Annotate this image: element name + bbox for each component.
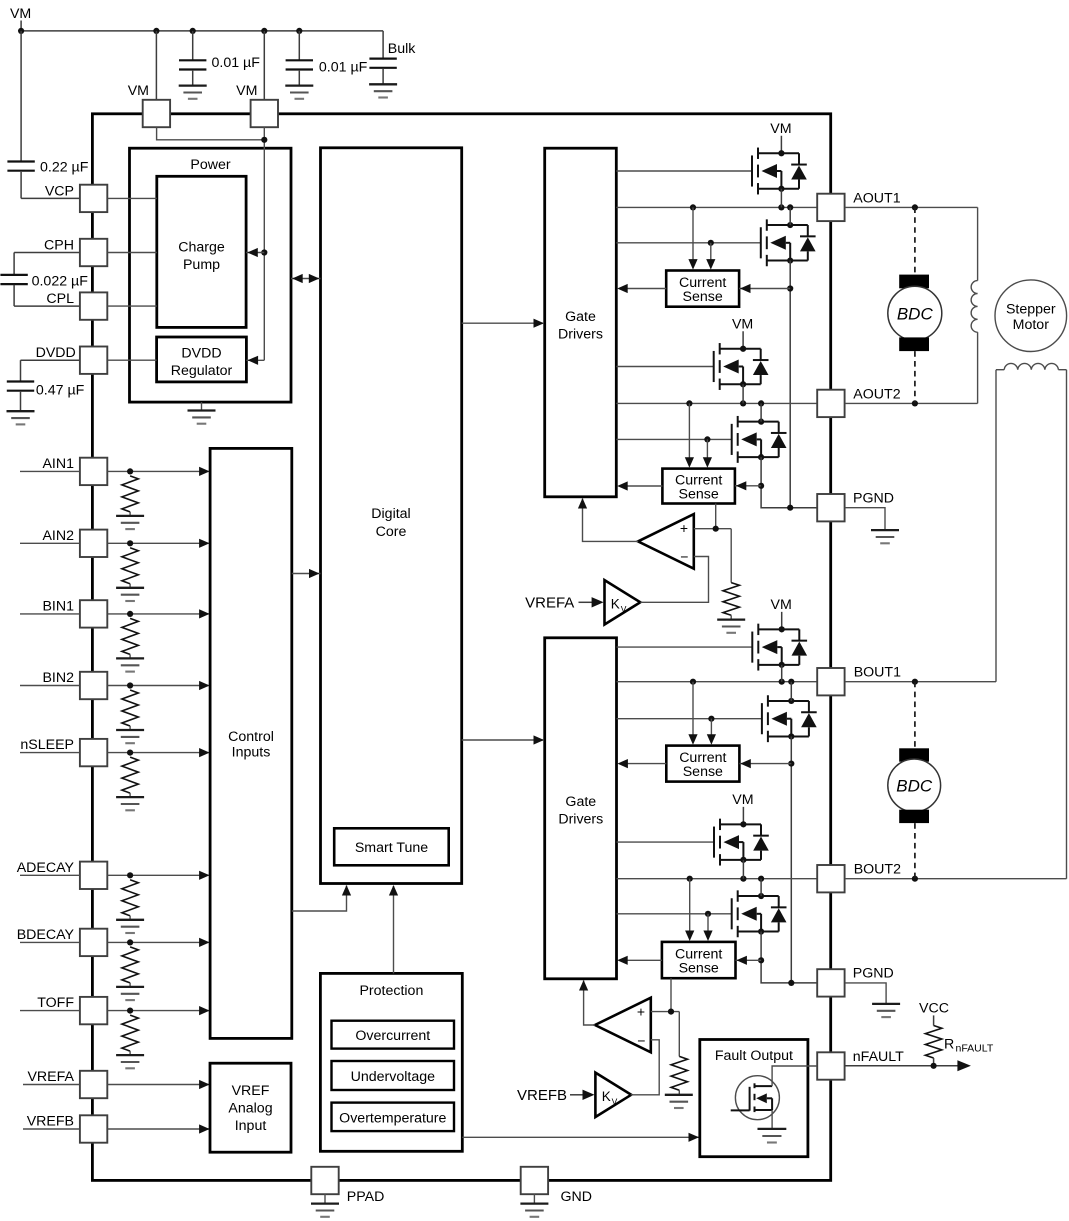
wire VM internal distribution: [157, 127, 268, 360]
ground: [116, 797, 144, 810]
svg-text:BDECAY: BDECAY: [17, 927, 75, 943]
wire Current Sense A1 to Gate Drivers with arrow: [617, 284, 666, 293]
ground: [116, 516, 144, 529]
node VCC pull-up: [919, 1001, 949, 1026]
transistor Q4 low-side A2: [732, 416, 787, 463]
resistor pulldown on ADECAY: [122, 880, 138, 920]
pin PGND (lower): [817, 966, 894, 997]
ground: [871, 530, 899, 543]
wire VM rail: [18, 28, 383, 34]
svg-text:Inputs: Inputs: [232, 745, 271, 761]
svg-text:Control: Control: [228, 729, 274, 745]
pin CPL: [46, 291, 107, 320]
wire Control Inputs to Digital Core with arrow: [292, 569, 321, 578]
op-amp comparator B: [595, 998, 651, 1053]
block Current Sense B2: [662, 942, 736, 978]
transistor Q5 high-side B1: [752, 597, 807, 671]
svg-text:Power: Power: [190, 157, 230, 173]
wire Kv B output to comparator B minus input: [631, 1040, 660, 1095]
svg-text:ADECAY: ADECAY: [17, 860, 75, 876]
ground: [179, 86, 207, 99]
wire fault drain to nFAULT pin: [772, 1066, 817, 1086]
capacitor 0.47 uF on DVDD: [7, 360, 80, 411]
svg-text:DVDD: DVDD: [36, 345, 76, 361]
block Gate Drivers B: [545, 638, 617, 979]
pin AIN2: [42, 528, 107, 557]
svg-text:VM: VM: [10, 6, 31, 22]
wire PGND lower to ground: [845, 983, 886, 1004]
wire gate low-side A2: [616, 436, 731, 442]
svg-text:VCP: VCP: [45, 183, 74, 199]
motor BDC A (dashed option): [888, 207, 942, 403]
svg-text:AOUT2: AOUT2: [853, 386, 900, 402]
svg-text:nFAULT: nFAULT: [956, 1042, 994, 1054]
svg-text:Pump: Pump: [183, 257, 220, 273]
svg-text:Sense: Sense: [683, 289, 723, 305]
resistor pulldown on BIN2: [122, 690, 138, 730]
ground: [116, 658, 144, 671]
wire Q4 drain to AOUT2: [760, 403, 762, 421]
block Current Sense A2: [662, 469, 735, 504]
svg-text:K: K: [602, 1089, 611, 1104]
resistor pulldown on AIN2: [122, 548, 138, 588]
svg-text:VM: VM: [732, 792, 753, 808]
inductor phase B winding: [996, 363, 1067, 369]
wire BIN1 input: [20, 609, 210, 618]
wire Q7 source to BOUT2: [742, 860, 744, 879]
wire sense taps into Current Sense B2: [685, 879, 713, 941]
wire gate high-side B1: [617, 646, 753, 648]
pin VREFB: [27, 1114, 108, 1143]
ground: [116, 987, 144, 1000]
ground: [369, 84, 397, 97]
capacitor 0.01 uF (second bypass): [286, 31, 313, 85]
svg-text:BIN1: BIN1: [42, 599, 74, 615]
wire ADECAY input: [20, 871, 210, 880]
wire VM to DVDD Regulator with arrow: [246, 356, 264, 365]
pin VM (right): [236, 83, 278, 127]
svg-text:R: R: [944, 1036, 954, 1052]
wire sense taps into Current Sense A2: [685, 403, 712, 467]
block Gate Drivers A: [545, 148, 617, 497]
wire Protection to Digital Core with arrow: [389, 885, 398, 973]
svg-text:Drivers: Drivers: [558, 326, 603, 342]
svg-text:+: +: [637, 1004, 645, 1020]
wire CPL to Charge Pump: [108, 305, 157, 307]
wire comparator B output to Gate Drivers with arrow: [579, 980, 595, 1025]
block Smart Tune: [334, 828, 449, 865]
node VREFB input: [517, 1087, 595, 1104]
pin ADECAY: [17, 860, 108, 889]
svg-text:0.01 µF: 0.01 µF: [212, 55, 261, 71]
ground: [116, 730, 144, 743]
transistor Q2 low-side A1: [761, 219, 816, 266]
wire gate high-side A2: [616, 366, 713, 368]
wire Digital Core to Gate Drivers A with arrow: [462, 319, 544, 328]
ground: [311, 1204, 339, 1217]
svg-text:PGND: PGND: [853, 966, 894, 982]
wire BIN2 input: [20, 681, 210, 690]
resistor pulldown on TOFF: [122, 1015, 138, 1055]
block Power: [130, 148, 292, 402]
pin GND: [521, 1167, 592, 1205]
svg-text:Overtemperature: Overtemperature: [339, 1110, 446, 1126]
ground: [116, 1055, 144, 1068]
svg-text:Sense: Sense: [683, 764, 723, 780]
svg-text:Regulator: Regulator: [171, 363, 233, 379]
svg-text:Protection: Protection: [359, 983, 423, 999]
wire VM pin 2 drop: [263, 31, 265, 100]
IC boundary: [92, 114, 830, 1181]
wire Protection to Fault Output with arrow: [462, 1133, 699, 1142]
svg-text:K: K: [611, 597, 620, 612]
block Control Inputs: [210, 448, 292, 1038]
pin VM (left): [128, 83, 170, 127]
wire Current Sense B2 to comparator B plus input: [651, 978, 680, 1015]
wire VM pin 1 drop: [155, 31, 157, 100]
svg-text:Digital: Digital: [371, 506, 410, 522]
pin BDECAY: [17, 927, 108, 956]
wire Q5 source to BOUT1: [781, 665, 783, 682]
ground: [285, 86, 313, 99]
svg-text:V: V: [621, 604, 627, 614]
svg-text:AOUT1: AOUT1: [853, 190, 900, 206]
svg-text:Input: Input: [235, 1118, 267, 1134]
wire sense taps into Current Sense B1: [688, 682, 716, 745]
ground: [520, 1204, 548, 1217]
wire fault source to ground: [771, 1110, 773, 1129]
capacitor 0.22 uF on VCP: [7, 31, 79, 199]
wire gate low-side A1: [616, 240, 761, 246]
wire source sense into Current Sense B1 with arrow: [739, 759, 791, 768]
wire source sense into Current Sense A1 with arrow: [739, 284, 790, 293]
wire Q2 drain to AOUT1: [789, 207, 791, 225]
resistor comparator A reference: [723, 529, 739, 620]
resistor pulldown on BDECAY: [122, 947, 138, 987]
pin VCP: [45, 183, 107, 212]
wire VCP to Charge Pump: [108, 197, 157, 199]
resistor pulldown on BIN1: [122, 618, 138, 658]
block Fault Output: [700, 1040, 808, 1157]
svg-text:CPH: CPH: [44, 238, 74, 254]
svg-text:Gate: Gate: [565, 794, 596, 810]
svg-text:VM: VM: [128, 83, 149, 99]
svg-text:Gate: Gate: [565, 309, 596, 325]
svg-text:nFAULT: nFAULT: [853, 1049, 904, 1065]
resistor comparator B reference: [671, 1012, 687, 1095]
ground: [665, 1095, 693, 1108]
svg-text:Core: Core: [376, 524, 407, 540]
wire Current Sense A2 to Gate Drivers with arrow: [617, 481, 662, 490]
amplifier Kv B: [595, 1073, 631, 1117]
ground: [7, 411, 35, 424]
svg-text:BDC: BDC: [897, 305, 934, 324]
pin nFAULT: [817, 1049, 904, 1080]
pin BIN2: [42, 670, 107, 699]
svg-text:VM: VM: [236, 83, 257, 99]
wire PPAD to ground: [324, 1194, 326, 1204]
wire Q8 drain to BOUT2: [760, 879, 762, 896]
svg-text:Analog: Analog: [228, 1101, 272, 1117]
pin AIN1: [42, 456, 107, 485]
svg-text:0.22 µF: 0.22 µF: [40, 159, 89, 175]
block Current Sense A1: [666, 271, 739, 307]
wire nFAULT output with arrow: [845, 1060, 971, 1071]
pin VREFA: [27, 1069, 107, 1098]
transistor Q6 low-side B1: [762, 695, 817, 742]
svg-text:Stepper: Stepper: [1006, 302, 1056, 318]
svg-text:BIN2: BIN2: [42, 670, 74, 686]
capacitor 0.01 uF (first bypass): [179, 31, 206, 85]
transistor Q7 high-side B2: [714, 792, 769, 866]
capacitor 0.022 uF between CPH and CPL: [0, 253, 79, 307]
svg-text:VREFB: VREFB: [27, 1114, 74, 1130]
svg-text:nSLEEP: nSLEEP: [20, 737, 74, 753]
svg-text:Bulk: Bulk: [388, 41, 417, 57]
wire AOUT2 external: [845, 400, 978, 406]
block VREF Analog Input: [210, 1063, 291, 1152]
motor Stepper Motor: [995, 280, 1067, 352]
pin TOFF: [37, 995, 107, 1024]
svg-text:VREFB: VREFB: [517, 1087, 567, 1104]
svg-text:VREFA: VREFA: [27, 1069, 74, 1085]
svg-text:0.47 µF: 0.47 µF: [36, 383, 85, 399]
pin PGND (upper): [817, 490, 894, 521]
svg-text:Charge: Charge: [178, 240, 225, 256]
wire Q4 source to PGND: [758, 457, 817, 511]
wire Q6 source to PGND: [788, 736, 794, 982]
ground: [872, 1004, 900, 1017]
inductor phase A winding: [971, 207, 977, 403]
amplifier Kv A: [605, 580, 641, 624]
wire Kv A output to comparator A minus input: [640, 557, 708, 603]
svg-text:VM: VM: [732, 316, 753, 332]
svg-text:−: −: [637, 1032, 645, 1048]
wire GND to ground: [533, 1194, 535, 1204]
wire AIN1 input: [20, 467, 210, 476]
wire PGND upper to ground: [845, 508, 885, 530]
wire BOUT1 external: [845, 370, 996, 685]
wire VM to Charge Pump with arrow: [246, 248, 264, 257]
ground: [717, 620, 745, 633]
svg-text:VREFA: VREFA: [525, 594, 574, 611]
ground: [116, 920, 144, 933]
wire TOFF input: [20, 1006, 210, 1015]
wire gate low-side B1: [617, 716, 762, 722]
op-amp comparator A: [638, 514, 694, 569]
block Undervoltage: [332, 1061, 455, 1090]
wire BOUT2 net (internal): [617, 876, 818, 882]
svg-text:Motor: Motor: [1013, 317, 1050, 333]
resistor pulldown on AIN1: [122, 476, 138, 516]
ground: [116, 588, 144, 601]
wire sense taps into Current Sense A1: [688, 207, 715, 269]
wire VREFA to VREF block: [23, 1080, 210, 1089]
wire BOUT2 external: [845, 370, 1067, 882]
pin CPH: [44, 238, 107, 267]
svg-text:Drivers: Drivers: [558, 811, 603, 827]
block Protection: [320, 973, 462, 1151]
wire Q6 drain to BOUT1: [790, 682, 792, 701]
ground: [757, 1129, 786, 1143]
pin BOUT2: [817, 862, 901, 893]
ground: [188, 402, 216, 424]
transistor Q1 high-side A1: [752, 121, 807, 195]
svg-text:AIN2: AIN2: [42, 528, 74, 544]
wire AOUT1 external: [845, 204, 978, 210]
motor BDC B (dashed option): [888, 682, 941, 879]
wire Control Inputs to Digital Core bottom with arrow: [292, 885, 351, 911]
wire Current Sense A2 to comparator A plus input: [694, 504, 731, 532]
wire comparator A output to Gate Drivers with arrow: [578, 498, 638, 541]
svg-text:BDC: BDC: [896, 777, 933, 796]
wire source sense into Current Sense B2 with arrow: [736, 956, 762, 965]
node VM supply: [10, 6, 31, 31]
pin PPAD: [311, 1167, 384, 1205]
svg-text:Undervoltage: Undervoltage: [351, 1069, 436, 1085]
pin nSLEEP: [20, 737, 107, 766]
svg-text:VCC: VCC: [919, 1001, 949, 1017]
wire Q1 source to AOUT1: [780, 189, 782, 208]
wire Power to Digital Core (bidirectional arrow): [291, 274, 321, 283]
block Charge Pump: [157, 176, 246, 327]
svg-text:Smart Tune: Smart Tune: [355, 840, 428, 856]
svg-text:V: V: [612, 1096, 618, 1106]
svg-text:VM: VM: [770, 121, 791, 137]
wire gate high-side A1: [616, 170, 752, 172]
block Overcurrent: [332, 1021, 455, 1049]
pin DVDD: [36, 345, 108, 374]
svg-text:Fault Output: Fault Output: [715, 1048, 793, 1064]
wire VREFB to VREF block: [23, 1124, 210, 1133]
resistor RnFAULT: [925, 1026, 941, 1066]
block Overtemperature: [332, 1103, 455, 1132]
wire BOUT1 net (internal): [617, 679, 818, 685]
svg-text:PGND: PGND: [853, 490, 894, 506]
wire CPH to Charge Pump: [108, 252, 157, 254]
wire Q8 source to PGND: [758, 932, 817, 986]
svg-text:Sense: Sense: [679, 961, 719, 977]
wire source sense into Current Sense A2 with arrow: [735, 481, 761, 490]
svg-text:BOUT2: BOUT2: [854, 862, 901, 878]
node VREFA input: [525, 594, 603, 611]
wire Q3 source to AOUT2: [742, 384, 744, 403]
svg-text:PPAD: PPAD: [347, 1189, 385, 1205]
transistor Q3 high-side A2: [714, 316, 769, 390]
svg-text:AIN1: AIN1: [42, 456, 74, 472]
wire DVDD to DVDD Regulator: [108, 359, 157, 361]
wire Current Sense B2 to Gate Drivers with arrow: [617, 956, 662, 965]
wire nSLEEP input: [20, 748, 210, 757]
svg-text:CPL: CPL: [46, 291, 74, 307]
block DVDD Regulator: [157, 337, 247, 382]
block Current Sense B1: [666, 746, 739, 782]
svg-text:GND: GND: [561, 1189, 593, 1205]
svg-text:VM: VM: [771, 597, 792, 613]
svg-text:0.022 µF: 0.022 µF: [32, 274, 89, 290]
svg-text:−: −: [680, 549, 688, 565]
block Digital Core: [321, 148, 462, 884]
wire Q2 source to PGND: [787, 261, 793, 508]
wire AOUT1 net (internal): [616, 204, 817, 210]
transistor open-drain fault (in circle): [731, 1076, 780, 1120]
svg-text:Overcurrent: Overcurrent: [355, 1028, 430, 1044]
pin AOUT2: [817, 386, 901, 417]
svg-text:TOFF: TOFF: [37, 995, 74, 1011]
wire Current Sense B1 to Gate Drivers with arrow: [617, 759, 666, 768]
pin BIN1: [42, 599, 107, 628]
wire gate low-side B2: [617, 911, 732, 917]
svg-text:DVDD: DVDD: [181, 345, 221, 361]
pin AOUT1: [817, 190, 901, 221]
wire AIN2 input: [20, 539, 210, 548]
value label RnFAULT: [944, 1036, 994, 1054]
wire AOUT2 net (internal): [616, 400, 817, 406]
wire BDECAY input: [20, 938, 210, 947]
wire Digital Core to Gate Drivers B with arrow: [462, 735, 544, 744]
svg-text:+: +: [680, 520, 688, 536]
resistor pulldown on nSLEEP: [122, 757, 138, 797]
svg-text:VREF: VREF: [232, 1083, 270, 1099]
svg-text:0.01 µF: 0.01 µF: [319, 59, 368, 75]
capacitor Bulk: [369, 31, 396, 84]
pin BOUT1: [817, 665, 901, 696]
svg-text:BOUT1: BOUT1: [854, 665, 901, 681]
svg-text:Sense: Sense: [679, 487, 719, 503]
wire gate high-side B2: [617, 841, 715, 843]
transistor Q8 low-side B2: [732, 890, 787, 937]
